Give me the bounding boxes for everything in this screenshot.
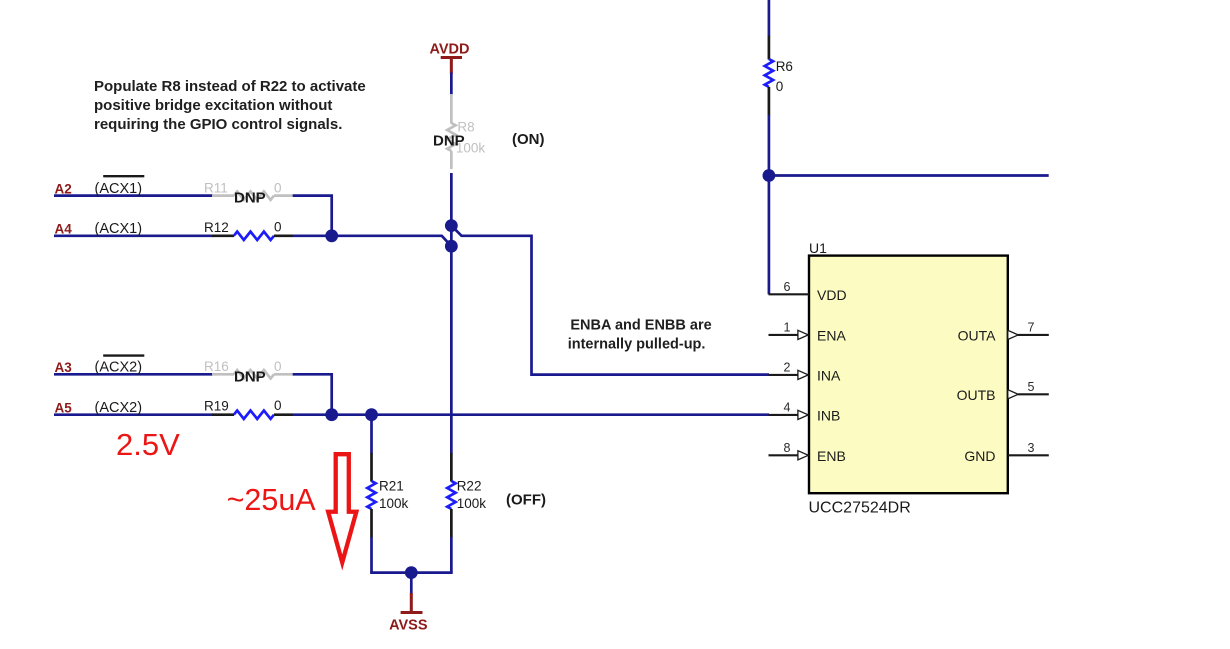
svg-text:ENB: ENB [817,448,846,464]
svg-text:6: 6 [784,280,791,294]
svg-text:(ACX1): (ACX1) [95,221,143,237]
svg-text:R19: R19 [204,399,229,414]
svg-text:0: 0 [274,359,282,374]
svg-text:5: 5 [1028,380,1035,394]
svg-text:AVSS: AVSS [389,617,428,633]
svg-text:UCC27524DR: UCC27524DR [809,500,911,517]
svg-text:A3: A3 [55,360,73,375]
svg-text:OUTA: OUTA [958,328,997,344]
svg-text:0: 0 [274,180,282,195]
svg-text:0: 0 [776,79,784,94]
svg-text:internally pulled-up.: internally pulled-up. [568,336,706,352]
svg-text:R22: R22 [457,479,482,494]
svg-text:~25uA: ~25uA [227,483,317,517]
svg-text:Populate R8 instead of R22 to: Populate R8 instead of R22 to activate [94,78,366,95]
svg-text:DNP: DNP [433,132,465,149]
svg-text:DNP: DNP [234,190,266,207]
svg-text:INB: INB [817,408,840,424]
svg-text:2: 2 [784,361,791,375]
svg-text:R11: R11 [204,180,228,195]
svg-text:100k: 100k [457,496,487,511]
svg-text:GND: GND [964,448,995,464]
svg-text:R12: R12 [204,220,229,235]
svg-text:A4: A4 [55,222,73,237]
svg-text:0: 0 [274,219,282,234]
svg-text:A5: A5 [55,401,73,416]
svg-text:INA: INA [817,368,841,384]
svg-text:R16: R16 [204,359,229,374]
svg-text:(ON): (ON) [512,131,545,148]
svg-text:positive bridge excitation wit: positive bridge excitation without [94,97,332,114]
svg-text:1: 1 [784,321,791,335]
svg-text:A2: A2 [55,182,72,197]
svg-text:U1: U1 [809,240,827,256]
svg-text:DNP: DNP [234,368,266,385]
svg-text:R21: R21 [379,479,404,494]
svg-text:OUTB: OUTB [957,387,996,403]
svg-text:3: 3 [1028,441,1035,455]
svg-text:0: 0 [274,398,282,413]
svg-text:100k: 100k [379,496,409,511]
svg-text:8: 8 [784,441,791,455]
svg-text:requiring the GPIO control sig: requiring the GPIO control signals. [94,116,342,133]
svg-text:ENBA and ENBB are: ENBA and ENBB are [570,318,711,334]
svg-text:(ACX2): (ACX2) [95,400,143,416]
svg-text:AVDD: AVDD [429,42,469,58]
svg-text:R6: R6 [776,59,793,74]
svg-text:ENA: ENA [817,328,846,344]
svg-text:(ACX2): (ACX2) [95,360,143,376]
svg-text:VDD: VDD [817,287,847,303]
svg-text:7: 7 [1028,321,1035,335]
svg-text:(ACX1): (ACX1) [95,181,143,197]
svg-text:2.5V: 2.5V [116,427,180,462]
svg-text:4: 4 [784,401,791,415]
svg-text:(OFF): (OFF) [506,491,546,508]
